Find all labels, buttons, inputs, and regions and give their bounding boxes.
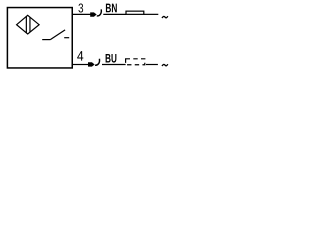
- wire to supply N: [146, 64, 158, 66]
- AC supply tilde L: [162, 16, 168, 18]
- switch contact blade: [51, 30, 66, 40]
- switch contact fixed dash: [64, 37, 69, 39]
- proximity sensor diamond: [17, 15, 39, 34]
- diamond inner bar right: [29, 17, 31, 32]
- label BN: [106, 4, 117, 13]
- connector arc BN: [97, 9, 102, 16]
- diamond inner bar left: [25, 17, 27, 33]
- arrow BU: [88, 62, 95, 66]
- connector arc BU: [95, 59, 100, 66]
- wire terminal 4: [73, 64, 88, 66]
- label 3: [78, 4, 83, 13]
- wire BN: [103, 13, 126, 15]
- wire terminal 3: [73, 13, 91, 15]
- arrow BN: [90, 12, 97, 16]
- wire BU: [102, 64, 126, 66]
- switch contact lead: [42, 39, 50, 41]
- sensor body box: [7, 8, 72, 68]
- label BU: [106, 54, 117, 63]
- alternative load rectangle BU (dashed): [126, 59, 145, 65]
- wire to supply L: [144, 13, 159, 15]
- label 4: [77, 51, 83, 61]
- load rectangle BN: [126, 11, 144, 14]
- AC supply tilde N: [162, 64, 168, 66]
